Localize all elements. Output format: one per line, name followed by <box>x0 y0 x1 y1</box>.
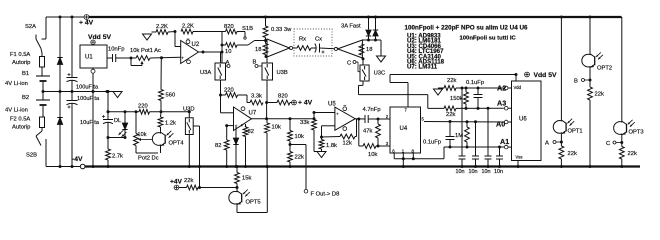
wire +4V bus (thick) <box>89 16 622 18</box>
resistor 10k (divider) <box>288 119 304 141</box>
resistor 22k (OPT1) <box>559 146 577 168</box>
node B control (U3B) <box>253 60 263 68</box>
wire Vdd to pin7 <box>390 75 408 108</box>
wire U2 output <box>199 51 224 54</box>
svg-text:F Out-> D8: F Out-> D8 <box>311 192 340 198</box>
resistor 220 (U7 input) <box>219 88 238 98</box>
junction 33k node <box>313 111 316 120</box>
junction Dl cathode node <box>107 136 126 139</box>
opto transistor OPT3 <box>614 120 644 136</box>
resistor 22k (OPT5 base) <box>179 178 198 190</box>
svg-text:22k: 22k <box>447 78 456 84</box>
wire amp B top corner <box>362 39 381 42</box>
wire U6 Vss <box>517 161 520 169</box>
resistor 82 (left) <box>215 140 229 168</box>
svg-text:F2 0.5A: F2 0.5A <box>10 117 30 123</box>
svg-text:F1 0.5A: F1 0.5A <box>10 52 30 58</box>
diode (U7 clamp) <box>233 131 238 169</box>
battery B1 <box>5 71 50 92</box>
wire U3B top <box>266 57 268 64</box>
pin U1 bottom <box>91 68 95 73</box>
resistor 33k <box>300 120 316 152</box>
svg-text:18: 18 <box>366 47 372 53</box>
node C control (U3C) <box>347 61 360 72</box>
svg-text:A2: A2 <box>497 84 506 93</box>
svg-text:B: B <box>574 79 578 85</box>
svg-text:U2: U2 <box>192 42 200 48</box>
svg-text:220: 220 <box>224 88 234 94</box>
resistor 820 (to +4V ref) <box>267 94 290 105</box>
svg-text:2.2K: 2.2K <box>182 24 194 30</box>
svg-text:U7: U7 <box>249 111 257 117</box>
resistor Rx <box>293 37 311 51</box>
svg-text:820: 820 <box>224 24 234 30</box>
svg-text:OPT3: OPT3 <box>629 130 644 136</box>
wire U6 Vdd pin <box>515 75 517 82</box>
pin A0 U6 <box>496 120 512 129</box>
switch S2B <box>26 131 46 167</box>
switch S1B <box>242 26 255 45</box>
capacitor Cx <box>311 37 334 54</box>
wire Vdd 5V rail <box>390 73 518 76</box>
power port Vdd 5V (U1) <box>88 34 112 45</box>
svg-text:0.1uFp: 0.1uFp <box>466 80 484 86</box>
svg-text:Vss: Vss <box>516 155 523 160</box>
capacitor 4.7nFp <box>363 107 381 123</box>
wire U5 out to 10k <box>359 119 363 146</box>
wire U7 inverting input <box>221 95 234 113</box>
wire OPT1 column <box>560 16 563 120</box>
ground symbol (A2 filter) <box>434 88 445 95</box>
resistor 10 (attenuator) <box>222 43 248 55</box>
svg-text:Rx: Rx <box>299 37 306 43</box>
svg-text:22k: 22k <box>184 178 193 184</box>
resistor 47k <box>363 119 380 146</box>
svg-text:-4V: -4V <box>72 156 83 163</box>
svg-text:A: A <box>545 141 549 147</box>
wire U3B bottom <box>266 80 268 103</box>
svg-text:Pot2 Dc: Pot2 Dc <box>138 156 159 162</box>
pin 2 U4 <box>386 114 389 119</box>
resistor 22k (A2 filter) <box>444 78 456 90</box>
svg-text:2.7k: 2.7k <box>112 154 123 160</box>
potentiometer Pot2 10k <box>134 112 159 162</box>
svg-text:220: 220 <box>138 104 148 110</box>
resistor 1.2k <box>158 112 176 132</box>
LED DL <box>114 112 128 139</box>
wire U4 pin5 to A0 <box>424 120 504 123</box>
capacitor 100uF ta (upper) <box>67 17 99 92</box>
svg-text:C: C <box>347 61 351 67</box>
IC U4 box <box>390 107 421 153</box>
node +4V port (OPT5) <box>170 179 183 190</box>
wire pot2 bottom <box>136 146 158 154</box>
svg-text:10nFp: 10nFp <box>108 47 124 53</box>
svg-text:1.2k: 1.2k <box>165 121 176 127</box>
svg-text:10n: 10n <box>494 169 503 175</box>
svg-text:0.1uFp: 0.1uFp <box>423 139 441 145</box>
svg-text:820: 820 <box>278 94 288 100</box>
wire pot1 to U2 <box>150 56 181 59</box>
svg-text:82: 82 <box>248 129 254 135</box>
wire lower rail <box>107 110 190 113</box>
svg-text:33k: 33k <box>300 120 309 126</box>
wire U3A bottom <box>220 80 222 95</box>
resistor 220 (lower rail) <box>138 104 150 115</box>
op-amp U5 <box>328 102 355 131</box>
node C terminal <box>606 136 623 148</box>
svg-text:S1B: S1B <box>242 26 253 32</box>
wire U3D to OPT5 <box>193 126 201 188</box>
junction amp A top node <box>264 39 267 42</box>
svg-text:Cx: Cx <box>315 37 322 43</box>
svg-text:U3A: U3A <box>200 70 211 76</box>
wire 0V mid rail <box>42 90 115 93</box>
potentiometer Pot1 10k <box>130 48 162 66</box>
svg-text:U1: U1 <box>85 55 93 61</box>
wire A2 row <box>456 87 508 90</box>
wire U3D bottom <box>188 135 191 169</box>
diode D2 (battery protection) <box>57 90 62 168</box>
pin A1 U6 <box>500 137 512 149</box>
junction divider mid <box>289 141 292 146</box>
resistor 22k (OPT3) <box>619 147 637 169</box>
node B terminal <box>574 68 592 87</box>
svg-text:18: 18 <box>255 47 261 53</box>
svg-text:10n: 10n <box>456 169 465 175</box>
junction bus/cap column <box>71 16 74 19</box>
op-amp power stage B <box>334 40 362 58</box>
resistor 15k <box>235 165 252 190</box>
pin A3 U6 <box>497 99 512 110</box>
opto transistor OPT5 <box>229 190 261 206</box>
svg-text:+ 4V: + 4V <box>79 19 94 26</box>
svg-text:10uF ta: 10uF ta <box>80 120 100 126</box>
svg-text:S2B: S2B <box>26 153 37 159</box>
wire -4V rail thin segment <box>46 166 80 168</box>
svg-text:1: 1 <box>245 124 247 128</box>
ground symbol (1.8k/33k) <box>314 152 326 158</box>
junction U2 inverting node <box>174 30 177 33</box>
svg-text:4: 4 <box>241 124 243 128</box>
svg-text:A0: A0 <box>496 120 505 129</box>
svg-text:A1: A1 <box>500 137 509 146</box>
opto transistor OPT1 <box>553 119 582 135</box>
resistor 1.8k <box>319 137 337 152</box>
resistor 560 <box>159 58 176 112</box>
power port Vdd 5V (right) <box>525 72 557 79</box>
op-amp U2 <box>181 39 200 64</box>
opto transistor OPT2 <box>582 52 612 71</box>
wire -4V bus (thick) <box>85 165 640 167</box>
svg-text:100nFpoli + 220pF NPO su alim: 100nFpoli + 220pF NPO su alim U2 U4 U6 <box>405 25 529 32</box>
svg-text:82: 82 <box>215 143 221 149</box>
svg-text:10k Pot1 Ac: 10k Pot1 Ac <box>130 48 161 54</box>
wire A3 row <box>456 107 504 110</box>
svg-text:22k: 22k <box>295 155 304 161</box>
svg-text:2.2K: 2.2K <box>156 24 168 30</box>
resistor 2.7k <box>106 138 123 169</box>
resistor 18 (amp B) <box>359 44 372 55</box>
pin 3 U4 <box>386 141 389 146</box>
svg-text:B1: B1 <box>22 71 29 77</box>
svg-text:OPT2: OPT2 <box>597 66 612 72</box>
svg-text:1.8k: 1.8k <box>326 143 337 149</box>
capacitor 10uF ta <box>80 112 113 138</box>
wire U3D top <box>188 110 191 118</box>
wire OPT5 emitter <box>237 165 269 213</box>
svg-text:OPT1: OPT1 <box>568 129 583 135</box>
svg-text:10k: 10k <box>272 125 281 131</box>
junction U5 fb node <box>320 136 323 139</box>
wire +4V rail thin segment <box>46 16 84 18</box>
svg-text:10k: 10k <box>295 134 304 140</box>
pin labels U7 <box>241 124 247 128</box>
wire U1 Vss column <box>92 74 95 169</box>
junction OPT5 base node <box>198 186 239 189</box>
analog switch U3A <box>200 63 226 80</box>
svg-text:15k: 15k <box>242 176 251 182</box>
ground symbol (U2 input) <box>143 32 157 40</box>
resistor 82 (right) <box>243 124 254 168</box>
resistor 22k (OPT2) <box>588 87 604 168</box>
resistor 18 (amp A) <box>255 41 268 57</box>
wire U5 inverting <box>322 126 335 137</box>
capacitor 10n #4 (A1) <box>494 147 503 175</box>
wire A1 row <box>444 146 504 149</box>
svg-text:S2A: S2A <box>25 24 36 30</box>
wire amp B bottom corner <box>362 57 365 60</box>
node A control (U3A) <box>226 60 231 68</box>
opto transistor OPT4 <box>152 131 184 147</box>
note U3 CD4066 <box>407 43 441 50</box>
analog switch U3B <box>262 63 288 80</box>
svg-text:10n: 10n <box>469 169 478 175</box>
terminal F Out <box>304 189 339 197</box>
diode 3A Fast (right) <box>373 16 378 41</box>
resistor 22k (divider) <box>288 145 304 169</box>
resistor 10k (to pin3) <box>363 144 390 158</box>
op-amp U7 <box>234 107 257 131</box>
analog switch U3D <box>183 107 195 135</box>
node +4V port (ref) <box>290 100 313 107</box>
svg-text:12k: 12k <box>343 141 352 147</box>
wire U3C top <box>362 59 364 65</box>
wire U3C to filter <box>359 81 445 108</box>
resistor 1M <box>455 122 469 149</box>
svg-text:Autorip: Autorip <box>12 125 30 131</box>
wire OPT2 column <box>589 16 592 54</box>
note U4 LTC1967 <box>407 48 444 55</box>
svg-text:22k: 22k <box>628 151 637 157</box>
svg-text:0.33 3w: 0.33 3w <box>271 27 292 33</box>
wire S1B common <box>255 40 266 42</box>
svg-text:22k: 22k <box>568 151 577 157</box>
IC U6 box <box>512 81 542 161</box>
svg-text:Vdd: Vdd <box>514 85 522 90</box>
svg-text:4.7nFp: 4.7nFp <box>363 107 381 113</box>
svg-text:22k: 22k <box>446 112 455 118</box>
wire U4 ground pins <box>394 147 444 168</box>
wire U7 output <box>252 118 315 120</box>
pin 5 U4 <box>422 117 425 122</box>
wire to F Out <box>290 145 306 190</box>
wire 0V to lower rail <box>106 90 110 112</box>
diode 3A Fast (left) <box>341 16 371 41</box>
capacitor 0.1uFp (A0) <box>423 122 455 149</box>
resistor 10k (U7 out) <box>265 119 281 168</box>
analog switch U3C <box>360 65 385 81</box>
svg-text:3A Fast: 3A Fast <box>341 24 361 30</box>
svg-text:100uF ta: 100uF ta <box>76 85 99 91</box>
svg-text:47k: 47k <box>363 129 372 135</box>
resistor 2.2K (U2 feedback) <box>181 24 222 34</box>
svg-text:Vdd 5V: Vdd 5V <box>534 72 558 79</box>
svg-text:U4: U4 <box>400 126 408 132</box>
junction bus/diode column <box>59 16 62 19</box>
ground symbol (mid rail) <box>113 92 122 98</box>
capacitor 10n #3 (A3) <box>482 108 492 175</box>
svg-text:+ 4V: + 4V <box>298 100 313 107</box>
dashed box probe <box>294 29 332 56</box>
wire U3A top <box>220 52 222 63</box>
resistor 22k (A3 filter) <box>444 106 456 118</box>
svg-text:4V Li-ion: 4V Li-ion <box>5 108 28 114</box>
svg-text:C: C <box>606 141 610 147</box>
note capacitors line2 <box>460 35 517 41</box>
svg-text:10k: 10k <box>368 152 377 158</box>
wire U2 inverting input <box>175 32 181 47</box>
capacitor 10n #2 (A0) <box>469 122 480 175</box>
svg-text:OPT5: OPT5 <box>246 200 261 206</box>
svg-text:560: 560 <box>166 93 176 99</box>
svg-text:10: 10 <box>225 49 231 55</box>
op-amp power stage A <box>266 39 293 57</box>
note U5 CA3140 <box>407 53 441 60</box>
note U1 AD9833 <box>407 33 441 40</box>
svg-text:+: + <box>181 56 184 61</box>
switch S2A <box>25 17 46 49</box>
svg-text:100uF ta: 100uF ta <box>77 96 100 102</box>
svg-text:Autorip: Autorip <box>12 60 30 66</box>
svg-text:U5: U5 <box>328 102 336 108</box>
fuse F2 <box>10 117 45 132</box>
svg-text:U7: LM311: U7: LM311 <box>407 64 438 71</box>
node -4V supply port <box>72 156 85 169</box>
resistor 0.33 3w <box>263 16 292 41</box>
svg-text:U6: U6 <box>519 117 527 123</box>
wire 220 to 3.3k <box>238 95 251 103</box>
resistor 150k <box>450 88 468 108</box>
capacitor 100uF ta (lower) <box>67 90 100 168</box>
svg-text:+4V: +4V <box>170 179 183 186</box>
wire U7 noninverting input <box>225 124 236 140</box>
resistor 3.3k <box>250 94 263 105</box>
ground symbol (amp B) <box>377 40 386 62</box>
note U6 ADS1118 <box>407 59 445 66</box>
svg-text:U3C: U3C <box>374 70 386 76</box>
svg-text:Vdd 5V: Vdd 5V <box>88 34 112 41</box>
pin A2 U6 <box>497 84 512 93</box>
node +4V supply port <box>79 15 94 27</box>
svg-text:+: + <box>336 112 339 117</box>
note U7 LM311 <box>407 64 438 71</box>
resistor 12k <box>322 119 357 147</box>
junction 47k top <box>377 118 391 121</box>
svg-text:B2: B2 <box>22 95 29 101</box>
svg-text:A3: A3 <box>497 99 506 108</box>
svg-text:22k: 22k <box>595 92 604 98</box>
junction 10k column top <box>289 117 292 120</box>
note U2 LM6181 <box>407 38 441 45</box>
svg-text:100nFpoli su tutti IC: 100nFpoli su tutti IC <box>460 35 517 41</box>
wire OPT3 column <box>621 17 623 121</box>
svg-text:4V Li-ion: 4V Li-ion <box>5 81 28 87</box>
wire attenuator column <box>221 32 224 64</box>
svg-text:3.3k: 3.3k <box>251 94 262 100</box>
svg-text:U3B: U3B <box>277 70 288 76</box>
pin 7 U4 <box>405 108 408 113</box>
capacitor 10nFp <box>107 47 131 63</box>
resistor 820 (attenuator) <box>222 24 245 37</box>
note capacitors line1 <box>405 25 529 32</box>
pins 6 1 8 U4 <box>392 148 414 158</box>
svg-text:150k: 150k <box>450 96 463 102</box>
diode D1 (battery protection) <box>57 17 62 92</box>
battery B2 <box>5 92 50 118</box>
capacitor 0.1uFp (filter) <box>466 80 484 108</box>
node A terminal <box>545 134 563 146</box>
svg-text:10n: 10n <box>482 169 491 175</box>
op-amp U1 box <box>80 45 107 68</box>
junction amp A bottom node <box>265 55 268 58</box>
junction U7 out / 3.3k column <box>265 103 268 121</box>
junction U5 output <box>355 118 365 121</box>
capacitor 10n #1 (A2) <box>456 87 466 176</box>
resistor 2.2K (U2 input) <box>156 24 175 34</box>
wire OPT4 emitter <box>142 140 161 154</box>
fuse F1 <box>10 49 45 77</box>
svg-text:10k: 10k <box>138 132 147 138</box>
svg-text:OPT4: OPT4 <box>169 141 185 147</box>
wire measure node to U5+ <box>314 112 335 114</box>
junction 3.3k/820 node <box>265 101 268 104</box>
svg-text:DL: DL <box>114 118 121 124</box>
